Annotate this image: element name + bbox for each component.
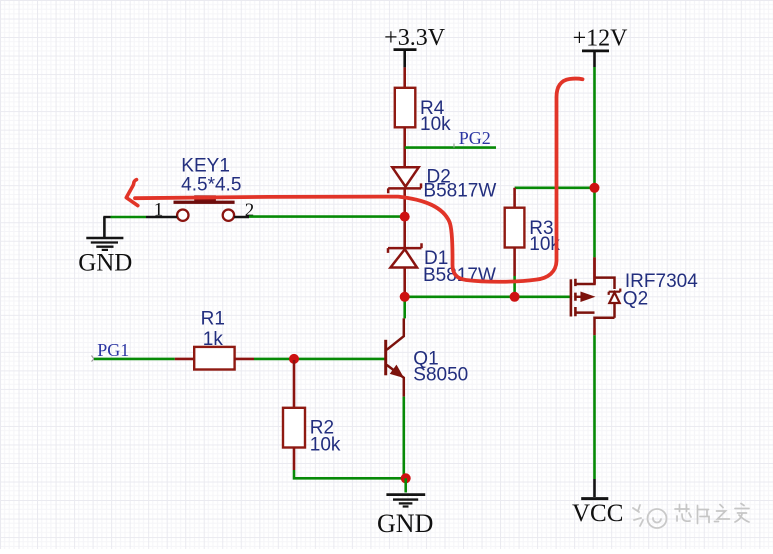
- body diode: [609, 289, 621, 295]
- svg-text:VCC: VCC: [572, 500, 623, 527]
- resistor R4: [395, 88, 416, 128]
- wire D2 to D1: [403, 190, 406, 248]
- svg-text:R1: R1: [201, 308, 225, 329]
- source arm: [575, 313, 614, 328]
- wire source to VCC: [593, 328, 596, 335]
- arrow: [576, 296, 581, 298]
- button plunger: [194, 195, 216, 203]
- svg-text:Q2: Q2: [623, 289, 648, 310]
- resistor R3: [505, 208, 525, 248]
- watermark text: [675, 504, 749, 524]
- wire R1 to node: [234, 358, 254, 361]
- pin leads: [146, 216, 249, 218]
- wire emitter down: [402, 397, 405, 479]
- svg-text:PG1: PG1: [97, 340, 129, 360]
- wire R3 bottom lead: [513, 248, 516, 277]
- wire PG1 to R1: [94, 358, 175, 361]
- wire +12V rail: [593, 67, 596, 257]
- wire GND to pin1: [103, 216, 110, 218]
- wire node to R2: [293, 360, 296, 409]
- wire R2 bottom: [293, 448, 296, 471]
- svg-text:4.5*4.5: 4.5*4.5: [181, 174, 241, 195]
- svg-text:S8050: S8050: [413, 364, 468, 385]
- junction R3 bottom: [510, 292, 520, 302]
- channel segments: [574, 279, 577, 316]
- ground GND left: [78, 217, 132, 277]
- diode D2 B5817W: [388, 167, 496, 202]
- power +12V: [573, 26, 629, 68]
- wire PG2 stub: [405, 146, 496, 149]
- wire D1 to node: [403, 268, 406, 297]
- resistor R1: [194, 347, 234, 370]
- svg-text:10k: 10k: [420, 114, 451, 135]
- wire +3.3V to R4: [403, 67, 406, 88]
- junction R1/R2/base: [289, 354, 299, 364]
- watermark logo: [633, 505, 667, 528]
- svg-text:+3.3V: +3.3V: [384, 25, 446, 51]
- wire to GND bottom: [404, 478, 407, 492]
- gate bar: [570, 279, 573, 316]
- wire collector node: [403, 297, 406, 319]
- transistor Q1 S8050: [386, 318, 469, 396]
- resistor R2: [283, 408, 305, 448]
- annotation arrowhead: [126, 180, 138, 206]
- svg-text:GND: GND: [78, 250, 132, 277]
- annotation red curve: [135, 79, 583, 282]
- junction rail/R3: [590, 183, 600, 193]
- junction emitter/R2/GND: [401, 473, 411, 483]
- wire pin2 to diode node: [249, 215, 405, 218]
- svg-text:B5817W: B5817W: [423, 181, 496, 202]
- power +3.3V: [384, 25, 446, 67]
- power VCC: [572, 479, 623, 527]
- button bar: [174, 201, 235, 204]
- wire R3 top row: [515, 187, 595, 190]
- wire R4 to D2: [403, 127, 406, 167]
- junction collector row: [400, 292, 410, 302]
- wire gate row: [405, 295, 570, 298]
- wire rail to drain: [593, 257, 596, 284]
- svg-text:10k: 10k: [310, 435, 341, 456]
- junction diode chain / key: [400, 212, 410, 222]
- svg-text:+12V: +12V: [573, 26, 629, 52]
- mosfet Q2 IRF7304: [571, 257, 698, 328]
- key KEY1: [146, 156, 254, 221]
- svg-text:GND: GND: [377, 509, 433, 538]
- diode D1 B5817W: [388, 243, 496, 286]
- ground GND bottom: [377, 495, 433, 538]
- drain arm: [575, 257, 594, 284]
- svg-text:1k: 1k: [203, 329, 224, 350]
- wire R3 top lead: [513, 188, 516, 209]
- svg-text:PG2: PG2: [459, 128, 491, 148]
